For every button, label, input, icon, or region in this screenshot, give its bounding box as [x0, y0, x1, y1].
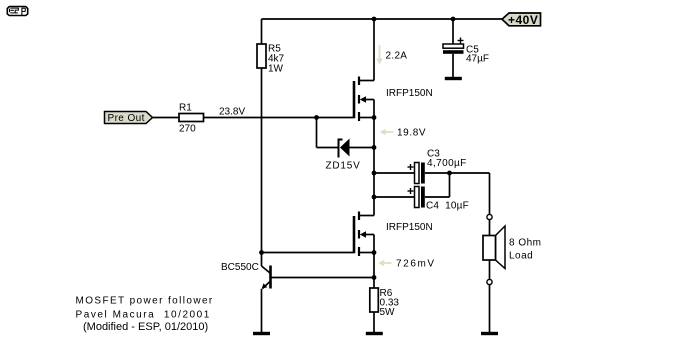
ground speaker — [481, 332, 498, 335]
node junction R6 top (726mV node) — [372, 275, 377, 280]
svg-text:BC550C: BC550C — [221, 262, 259, 273]
svg-text:R1: R1 — [179, 103, 192, 114]
wire zener branch down — [316, 118, 318, 148]
voltage arrow 19.8V — [380, 128, 426, 139]
capacitor C4 10uF — [408, 187, 469, 212]
speaker terminal top — [487, 214, 492, 219]
node junction C4 tap — [372, 195, 377, 200]
MOSFET Q1 IRFP150N (upper) — [354, 77, 433, 122]
wire BC550C emitter to ground — [261, 289, 263, 333]
wire R1 to Q1 gate (23.8V node) — [204, 117, 353, 119]
wire C5 to ground — [452, 54, 454, 78]
title text block — [76, 296, 214, 334]
svg-text:Load: Load — [509, 251, 533, 262]
svg-text:2.2A: 2.2A — [386, 51, 408, 62]
node junction zener anode — [372, 145, 377, 150]
node junction C4 riser — [447, 171, 452, 176]
wire +40V top rail — [262, 18, 503, 20]
wire R6 to ground — [373, 312, 375, 332]
wire node to R6 — [373, 278, 375, 289]
svg-text:C4 10µF: C4 10µF — [426, 201, 469, 212]
svg-text:5W: 5W — [380, 307, 396, 318]
node junction Q2 source — [372, 250, 377, 255]
ground BC550C — [253, 332, 270, 335]
ground C5 — [445, 77, 462, 80]
ESP logo — [7, 7, 27, 16]
svg-text:IRFP150N: IRFP150N — [386, 88, 433, 99]
node junction BC550C collector / Q2 gate — [259, 250, 264, 255]
wire Pre Out to R1 — [153, 117, 180, 119]
wire terminal to speaker — [489, 220, 491, 235]
svg-text:19.8V: 19.8V — [397, 128, 426, 139]
MOSFET Q2 IRFP150N (lower) — [354, 212, 433, 257]
svg-text:23.8V: 23.8V — [219, 107, 245, 118]
svg-text:1W: 1W — [268, 63, 284, 74]
ground R6 — [366, 332, 383, 335]
wire gate line to Q2 — [262, 252, 354, 254]
svg-text:(Modified - ESP, 01/2010): (Modified - ESP, 01/2010) — [83, 321, 208, 333]
wire C4 to riser — [425, 196, 450, 198]
svg-text:MOSFET power follower: MOSFET power follower — [76, 296, 214, 307]
node junction zener tap — [314, 115, 319, 120]
node junction C3 tap — [372, 171, 377, 176]
transistor Q3 BC550C — [221, 253, 374, 289]
wire terminal to ground — [489, 285, 491, 333]
wire C4 riser up — [449, 173, 451, 197]
svg-text:8 Ohm: 8 Ohm — [509, 238, 542, 249]
input port Pre Out — [105, 112, 153, 125]
power flag +40V — [502, 13, 541, 27]
svg-text:Pavel Macura 10/2001: Pavel Macura 10/2001 — [76, 310, 211, 321]
wire C5 from rail — [452, 19, 454, 44]
current arrow 2.2A — [376, 45, 407, 65]
svg-text:Pre Out: Pre Out — [108, 113, 145, 124]
wire rail to R5 — [261, 19, 263, 44]
svg-text:726mV: 726mV — [396, 259, 436, 270]
wire Q2 body stub down — [373, 235, 375, 253]
wire Q1 body stub down — [373, 100, 375, 118]
wire speaker to bottom terminal — [489, 260, 491, 279]
capacitor C5 47uF — [443, 38, 489, 65]
capacitor C3 4,700uF — [408, 149, 467, 184]
svg-text:47µF: 47µF — [466, 54, 489, 65]
wire C3 to output — [425, 172, 490, 174]
resistor R6 — [370, 288, 400, 318]
svg-text:4,700µF: 4,700µF — [427, 158, 467, 169]
svg-text:ZD15V: ZD15V — [326, 161, 361, 172]
wire Q2 source to R6 node — [373, 253, 375, 278]
node junction on rail at drain — [372, 17, 377, 22]
svg-text:+40V: +40V — [508, 13, 538, 27]
wire Q1 source down to lower drain — [373, 118, 375, 216]
resistor R1 — [179, 103, 204, 135]
wire to C4 — [374, 196, 414, 198]
svg-text:IRFP150N: IRFP150N — [386, 222, 433, 233]
wire to C3 — [374, 172, 414, 174]
wire Q1 drain to rail — [373, 19, 375, 81]
zener diode ZD15V — [326, 139, 361, 172]
wire output down to speaker — [489, 173, 491, 215]
wire zener anode to source line — [350, 147, 375, 149]
voltage arrow 726mV — [378, 259, 435, 270]
speaker terminal bottom — [487, 279, 492, 284]
node junction on rail at C5 — [451, 17, 456, 22]
svg-text:270: 270 — [179, 124, 196, 135]
node junction Q1 source — [372, 115, 377, 120]
resistor R5 — [257, 44, 285, 75]
speaker 8 Ohm Load — [483, 226, 542, 269]
wire to zener cathode — [317, 147, 339, 149]
wire R5 bottom down to BC550C collector node (crosses input line) — [261, 68, 263, 253]
